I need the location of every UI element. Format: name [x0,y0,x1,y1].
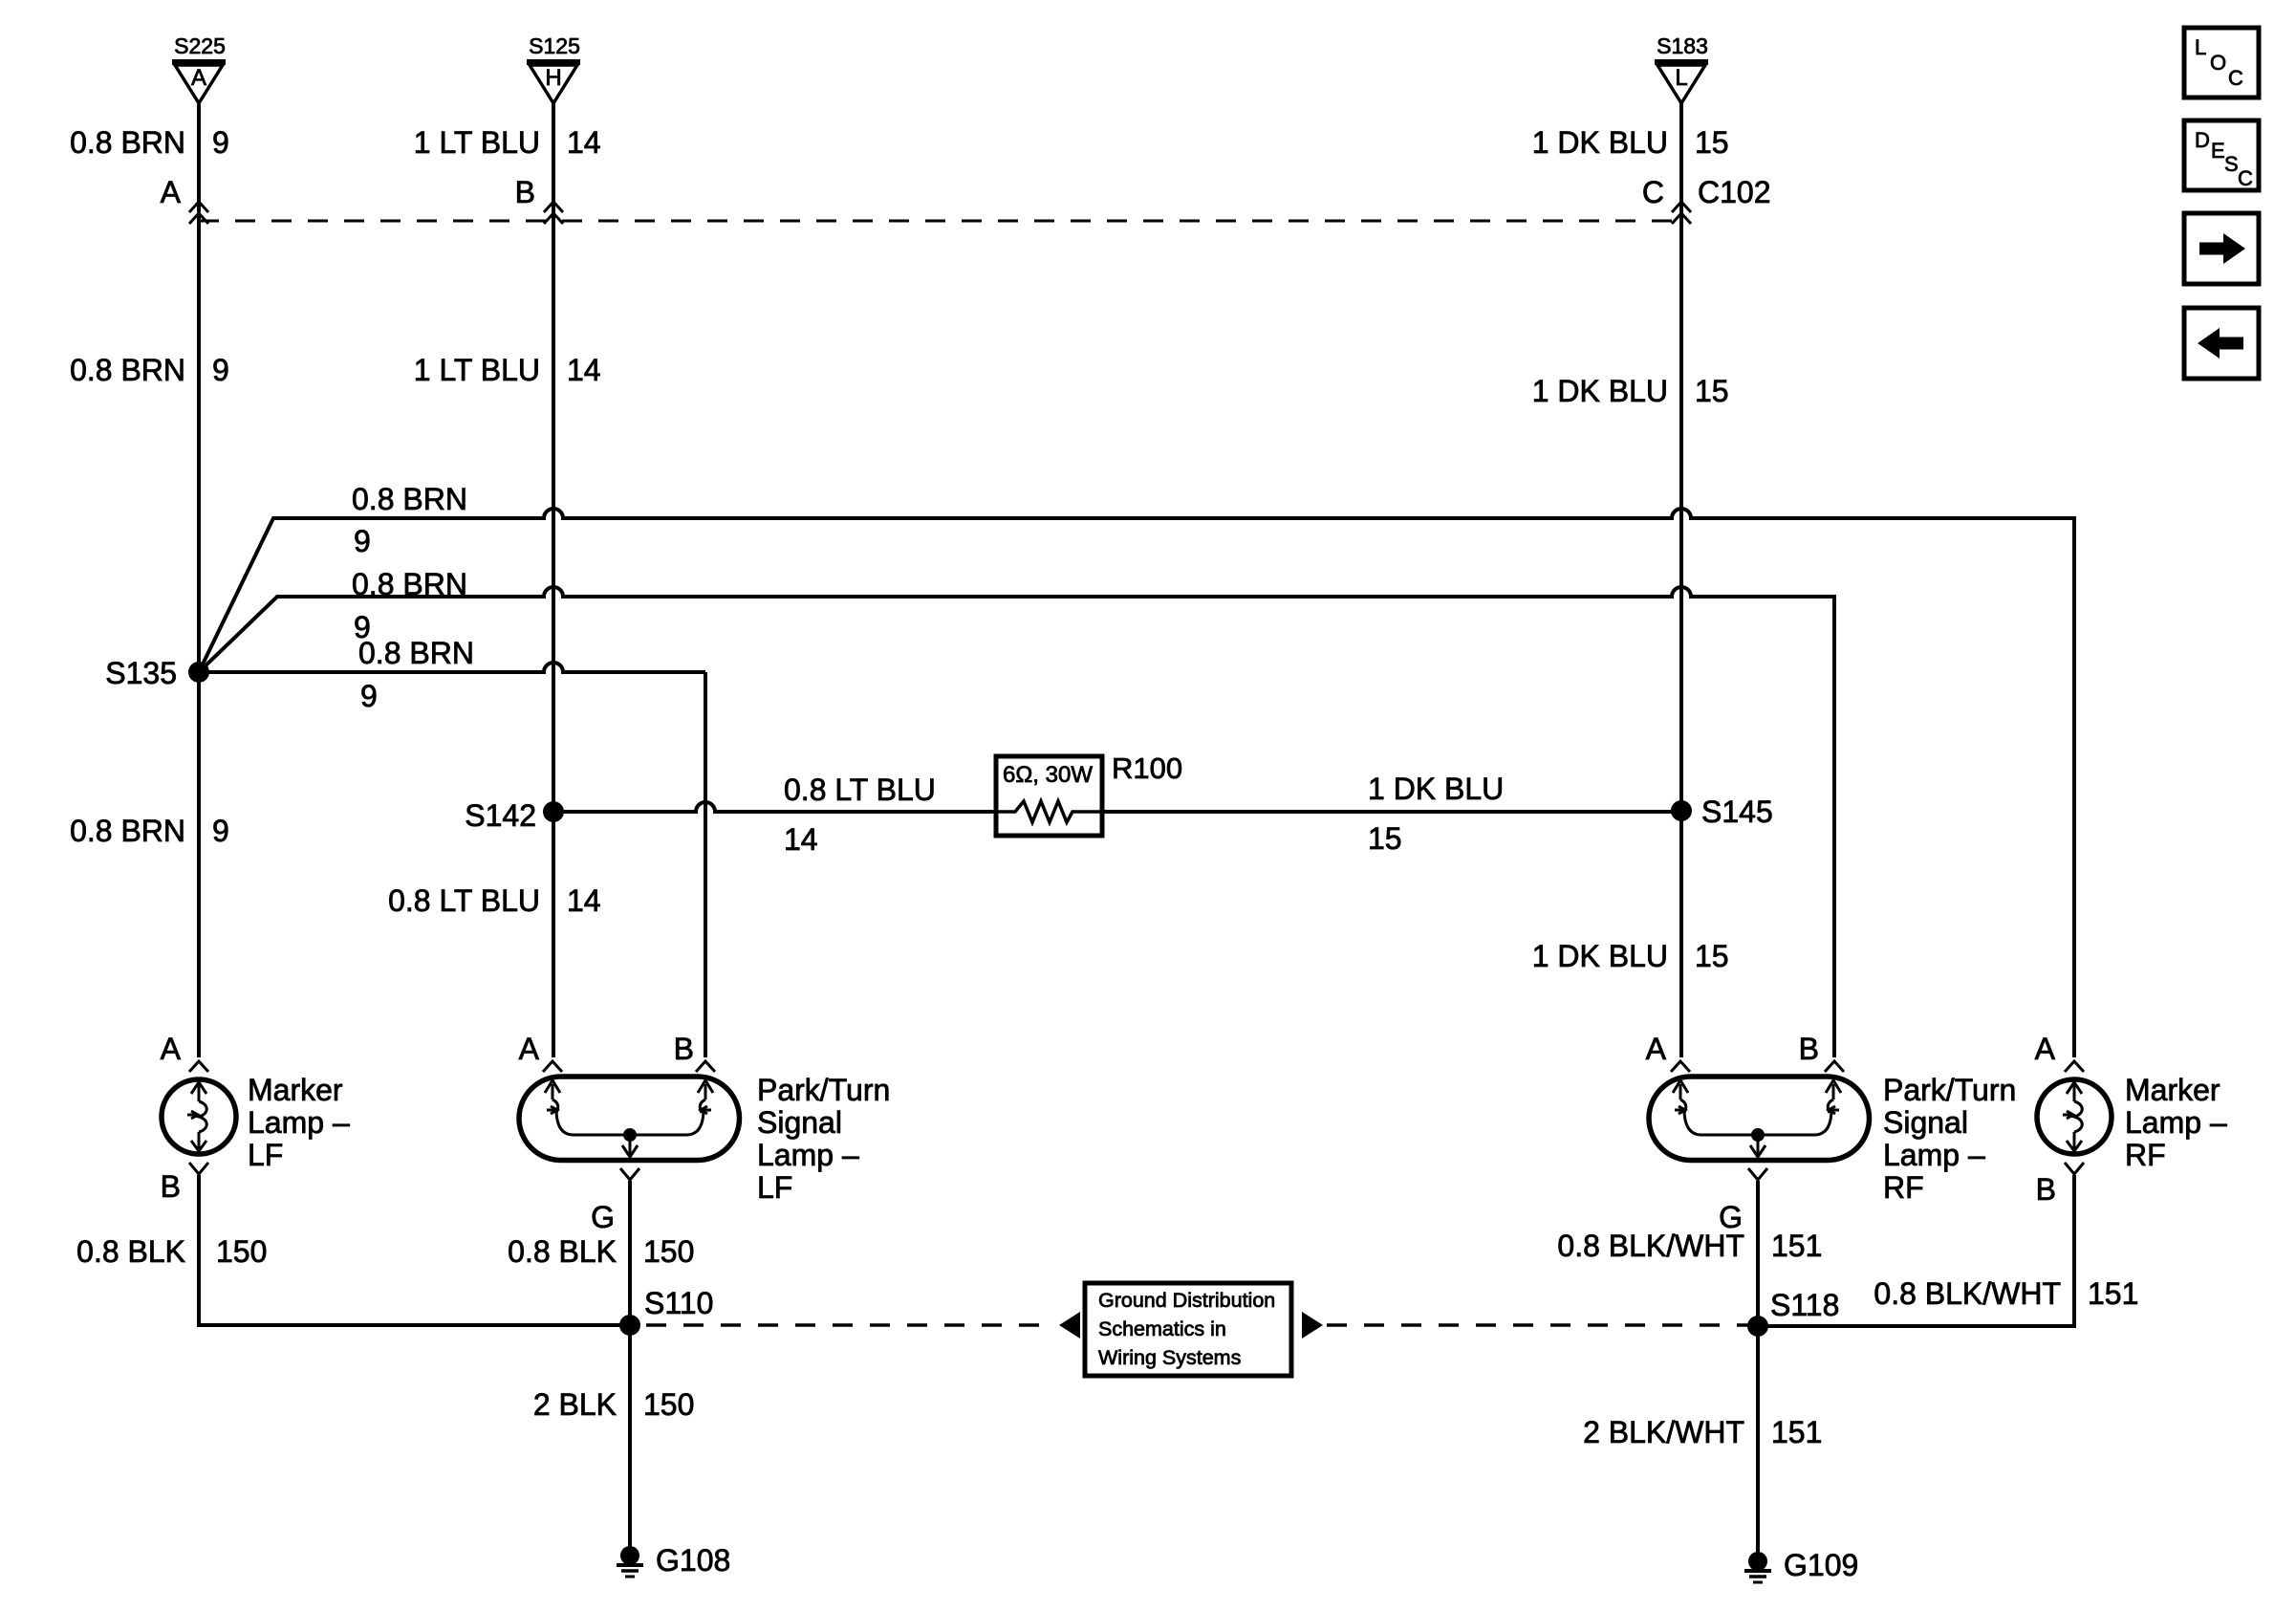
svg-text:0.8 BRN: 0.8 BRN [70,814,185,848]
svg-text:R100: R100 [1112,751,1182,785]
svg-text:S225: S225 [174,33,226,58]
svg-text:E: E [2211,139,2225,163]
svg-text:Wiring Systems: Wiring Systems [1098,1346,1241,1369]
svg-text:Park/Turn: Park/Turn [757,1073,890,1107]
svg-text:B: B [515,175,535,209]
svg-text:A: A [519,1032,540,1066]
svg-text:1 LT BLU: 1 LT BLU [414,353,540,387]
svg-text:0.8 BRN: 0.8 BRN [70,125,185,160]
svg-text:0.8 LT BLU: 0.8 LT BLU [388,883,540,918]
svg-text:Marker: Marker [248,1073,343,1107]
svg-text:1 DK BLU: 1 DK BLU [1532,939,1668,973]
svg-text:D: D [2195,128,2210,152]
svg-text:LF: LF [248,1138,283,1172]
svg-text:1 DK BLU: 1 DK BLU [1368,772,1504,806]
svg-text:S135: S135 [105,656,177,690]
svg-text:C: C [2228,66,2243,90]
svg-text:S145: S145 [1701,795,1773,829]
svg-text:Schematics in: Schematics in [1098,1317,1226,1340]
svg-text:9: 9 [360,679,378,713]
svg-text:LF: LF [757,1170,792,1205]
svg-text:B: B [674,1032,694,1066]
svg-text:S183: S183 [1657,33,1708,58]
svg-text:Park/Turn: Park/Turn [1883,1073,2016,1107]
svg-text:6Ω, 30W: 6Ω, 30W [1003,762,1093,788]
svg-text:B: B [161,1169,181,1204]
svg-text:150: 150 [643,1234,694,1269]
svg-text:1 LT BLU: 1 LT BLU [414,125,540,160]
svg-text:S125: S125 [529,33,580,58]
svg-text:0.8 BRN: 0.8 BRN [352,482,467,516]
svg-text:14: 14 [567,883,601,918]
svg-text:9: 9 [212,353,229,387]
svg-text:0.8 BLK: 0.8 BLK [76,1234,185,1269]
svg-text:9: 9 [212,125,229,160]
svg-text:L: L [1675,65,1687,91]
svg-text:RF: RF [1883,1170,1924,1205]
svg-text:C102: C102 [1698,175,1771,209]
svg-text:S118: S118 [1770,1288,1839,1322]
svg-text:151: 151 [2088,1276,2138,1311]
svg-text:RF: RF [2125,1138,2166,1172]
svg-text:14: 14 [567,125,601,160]
svg-text:0.8 BLK/WHT: 0.8 BLK/WHT [1557,1229,1744,1263]
svg-text:151: 151 [1771,1415,1822,1449]
svg-text:1 DK BLU: 1 DK BLU [1532,125,1668,160]
svg-text:C: C [2238,166,2253,190]
svg-text:Lamp –: Lamp – [1883,1138,1985,1172]
svg-text:S110: S110 [644,1286,713,1320]
svg-text:S: S [2224,152,2239,176]
svg-text:2 BLK/WHT: 2 BLK/WHT [1583,1415,1744,1449]
svg-text:0.8 BRN: 0.8 BRN [70,353,185,387]
svg-text:H: H [545,65,561,91]
svg-text:S142: S142 [465,798,536,833]
svg-text:0.8 BLK: 0.8 BLK [508,1234,617,1269]
svg-text:A: A [161,1032,182,1066]
svg-text:Lamp –: Lamp – [2125,1105,2227,1140]
svg-text:1 DK BLU: 1 DK BLU [1532,374,1668,408]
svg-text:15: 15 [1368,821,1402,856]
svg-text:14: 14 [784,822,818,857]
svg-text:A: A [161,175,182,209]
svg-text:Signal: Signal [757,1105,842,1140]
svg-text:A: A [191,65,206,91]
svg-text:B: B [2036,1172,2056,1207]
svg-text:A: A [2035,1032,2056,1066]
svg-text:B: B [1799,1032,1819,1066]
svg-text:150: 150 [643,1387,694,1422]
svg-text:G: G [591,1200,615,1234]
svg-text:Ground Distribution: Ground Distribution [1098,1289,1275,1312]
svg-text:G108: G108 [656,1543,730,1578]
svg-text:Lamp –: Lamp – [757,1138,859,1172]
svg-text:O: O [2210,51,2226,75]
svg-text:0.8 BLK/WHT: 0.8 BLK/WHT [1874,1276,2061,1311]
svg-text:2 BLK: 2 BLK [533,1387,617,1422]
svg-text:15: 15 [1695,939,1729,973]
svg-text:15: 15 [1695,125,1729,160]
svg-text:9: 9 [354,524,371,558]
svg-text:0.8 BRN: 0.8 BRN [352,567,467,601]
svg-text:A: A [1646,1032,1667,1066]
svg-text:0.8 BRN: 0.8 BRN [358,636,474,670]
svg-text:Marker: Marker [2125,1073,2220,1107]
svg-text:0.8 LT BLU: 0.8 LT BLU [784,773,936,807]
svg-text:151: 151 [1771,1229,1822,1263]
svg-text:Lamp –: Lamp – [248,1105,350,1140]
svg-text:150: 150 [216,1234,267,1269]
svg-text:G109: G109 [1784,1548,1858,1582]
svg-text:C: C [1642,175,1664,209]
svg-text:15: 15 [1695,374,1729,408]
svg-text:14: 14 [567,353,601,387]
svg-text:L: L [2195,35,2206,59]
svg-text:Signal: Signal [1883,1105,1968,1140]
svg-text:9: 9 [212,814,229,848]
